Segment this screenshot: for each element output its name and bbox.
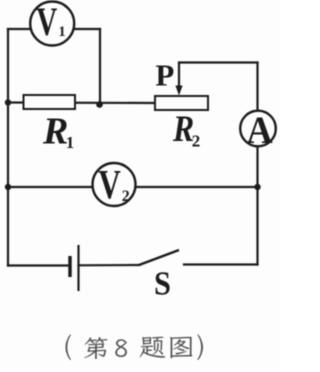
wire: right vertical rail — [256, 63, 258, 265]
wire: left vertical rail — [7, 29, 9, 266]
battery short plate — [68, 256, 72, 277]
wire: main row through R1 to R2 — [8, 101, 155, 104]
caption char ） — [197, 335, 203, 361]
svg-text:S: S — [154, 266, 171, 303]
node: right junction V2 row — [254, 184, 260, 190]
node: left junction R1 row — [5, 99, 11, 105]
wire: bottom rail left to battery — [8, 264, 70, 266]
voltmeter V1 circle — [30, 2, 74, 46]
wire: battery to switch pivot — [79, 264, 140, 266]
wire: V2 row horizontal — [8, 186, 258, 188]
wire: wiper top horizontal to right rail — [179, 61, 258, 63]
wire: switch contact to bottom right corner — [184, 263, 258, 265]
resistor (rheostat) R2 box — [155, 96, 208, 110]
caption char 题 — [140, 337, 166, 358]
caption char 图 — [170, 337, 193, 358]
rheostat wiper arrowhead — [175, 86, 182, 96]
svg-text:1: 1 — [58, 24, 66, 40]
svg-text:P: P — [155, 58, 174, 93]
switch S blade — [139, 250, 179, 265]
node: right junction R1 row — [96, 101, 103, 108]
caption char （ — [66, 335, 72, 361]
voltmeter V2 circle — [93, 163, 136, 206]
resistor R1 box — [24, 95, 76, 109]
battery long plate — [77, 245, 79, 291]
svg-text:1: 1 — [66, 133, 75, 152]
wire: top V1 branch horizontal — [8, 28, 100, 30]
svg-text:R: R — [42, 111, 68, 153]
caption char 8 — [115, 339, 127, 357]
node: left junction V2 row — [5, 184, 11, 190]
svg-text:V: V — [98, 161, 121, 207]
svg-text:2: 2 — [122, 188, 130, 205]
svg-text:V: V — [36, 0, 57, 44]
wire: drop from V1 branch to R1 node — [99, 29, 101, 104]
ammeter A circle — [240, 111, 276, 147]
caption (第 8 题图) — [66, 335, 204, 361]
caption char 第 — [84, 337, 108, 359]
rheostat wiper stem — [178, 63, 180, 89]
svg-text:A: A — [247, 109, 273, 152]
svg-text:2: 2 — [192, 132, 201, 151]
